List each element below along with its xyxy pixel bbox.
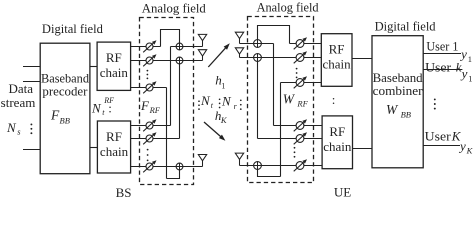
wire PS5 row to RF chain 2 (UE) r5 [258, 138, 323, 140]
wire antenna1 to adder B1 and riser corner r1 [240, 43, 274, 45]
svg-text:W: W [283, 92, 296, 107]
block: baseband precoder box [40, 43, 90, 174]
svg-text:Data: Data [9, 81, 34, 96]
wire user k output [423, 69, 462, 71]
wire RF1 through PS2 to adder A2 and antenna 2 row r2 [131, 60, 203, 62]
svg-text:y: y [459, 47, 467, 62]
block: RF chain 2 (UE) [322, 116, 352, 169]
svg-text:precoder: precoder [42, 83, 88, 98]
wire RF2 through PS6 and adder A3 to antenna 3 row r6 [131, 166, 203, 168]
wire RF2 to PS5 row r5 [131, 138, 180, 140]
node: dots between users [434, 98, 436, 109]
node: dots between inputs [30, 123, 32, 134]
wire riser from adder B2 bottom to PS5 row [257, 58, 259, 139]
phase shifter PU3 [294, 76, 307, 88]
svg-text:y: y [460, 66, 468, 81]
node: Ns label [6, 120, 21, 137]
node: dots between PS5 and PS6 [147, 149, 149, 162]
svg-text::: : [108, 101, 112, 116]
node: yk output label [460, 66, 473, 83]
node: RF chain 2 label [100, 129, 129, 159]
wire riser1 down to PS4 row [273, 44, 275, 126]
wire channel arrow up [208, 43, 230, 67]
svg-text:UE: UE [334, 185, 351, 200]
svg-text::: : [332, 92, 336, 107]
svg-text:Analog field: Analog field [142, 1, 206, 16]
svg-text:Analog field: Analog field [257, 0, 319, 14]
antenna UE 1 [235, 32, 243, 43]
wire data-stream input 2 [23, 81, 40, 83]
svg-text:chain: chain [100, 144, 129, 159]
svg-text:BS: BS [116, 185, 132, 200]
node: BS label [116, 185, 132, 200]
wire RF2 to PS4 row r4 [131, 125, 171, 127]
node: y1 output label [459, 47, 472, 64]
phase shifter PS5 [143, 132, 156, 144]
adder A1 [176, 43, 183, 50]
phase shifter PS3 [143, 81, 156, 93]
wire RF1 to PS1 row r1 [131, 46, 161, 48]
wire antenna3 through adder B3 and PS6 to RF chain 2 row r6 [240, 165, 323, 167]
adder B2 [254, 54, 262, 62]
wire riser r3 down [166, 88, 168, 179]
wire user 1 output [423, 53, 461, 55]
node: Digital field label (BS) [42, 21, 103, 36]
block: RF chain 1 (UE) [321, 34, 352, 87]
svg-text:y: y [458, 139, 466, 154]
node: User k label [425, 60, 462, 75]
node: RF chain 1 label [100, 50, 129, 80]
phase shifter PU1 [294, 37, 307, 49]
wire riser2 from PS3 row down [280, 83, 282, 177]
node: Nt Nr dims label [198, 93, 242, 111]
wire UE RF2 to combiner [353, 148, 373, 150]
node: Baseband combiner label [373, 70, 424, 98]
node: dots between PS2 and PS3 [147, 70, 149, 80]
wire channel arrow down [204, 122, 225, 141]
node: User 1 label [426, 38, 458, 53]
wire data-stream input 3 [23, 149, 40, 151]
svg-text:BB: BB [60, 116, 70, 126]
block: analog field dashed box (UE) [248, 17, 314, 183]
antenna BS 1 [198, 34, 206, 46]
svg-text:1: 1 [221, 81, 225, 90]
phase shifter PU6 [294, 159, 307, 171]
phase shifter PS6 [143, 160, 156, 172]
node: dots between UE RF chains [332, 92, 336, 107]
svg-text:RF: RF [329, 124, 345, 139]
wire over-path r1 to adder A1 top [161, 30, 180, 47]
block: RF chain 2 (BS) [97, 121, 130, 173]
wire precoder to RF chain 2 [90, 147, 98, 149]
phase shifter PS1 [143, 40, 156, 52]
phase shifter PU4 [294, 119, 307, 131]
wire RF1 to PS3 row r3 [131, 87, 167, 89]
antenna BS 2 [198, 50, 206, 61]
node: Baseband precoder label [41, 70, 89, 98]
wire PS4 row to RF chain 2 (UE) r4 [274, 125, 323, 127]
svg-text:Digital field: Digital field [42, 21, 103, 36]
node: WBB label [386, 102, 411, 120]
svg-text:RF: RF [106, 129, 122, 144]
svg-text:F: F [140, 98, 150, 113]
node: RF chain 2 UE label [323, 124, 352, 154]
wire user K output [423, 145, 460, 147]
node: Analog field label (UE) [257, 0, 319, 14]
phase shifter PU2 [294, 51, 307, 63]
node: Data stream label [1, 81, 36, 110]
svg-text:chain: chain [323, 57, 352, 72]
node: FBB label [50, 108, 70, 126]
svg-text:BB: BB [401, 110, 411, 120]
wire riser r4 up to adder A1 left [170, 47, 172, 126]
block: baseband combiner box [372, 36, 423, 168]
svg-text:RF: RF [296, 99, 308, 109]
svg-text:combiner: combiner [373, 83, 424, 98]
svg-text:N: N [200, 93, 211, 108]
svg-text:N: N [6, 120, 17, 135]
block: RF chain 1 (BS) [97, 42, 131, 90]
wire antenna2 through adder B2 and PS2 to RF1 row r2 [240, 57, 322, 59]
phase shifter PS2 [143, 54, 156, 66]
svg-text:User 1: User 1 [426, 38, 458, 53]
antenna UE 3 [235, 153, 243, 165]
node: Digital field label (UE) [375, 18, 436, 33]
wire data-stream input 1 [23, 66, 40, 68]
node: NtRF label [91, 96, 114, 117]
adder B3 [254, 162, 262, 170]
svg-text:User: User [425, 129, 452, 144]
phase shifter PU5 [294, 132, 307, 144]
antenna UE 2 [235, 48, 243, 58]
node: User K label [425, 129, 462, 144]
svg-text:F: F [50, 108, 60, 123]
node: dots between PU2 and PU3 [296, 68, 298, 79]
svg-text:chain: chain [323, 139, 352, 154]
node: UE label [334, 185, 351, 200]
svg-text:RF: RF [149, 105, 161, 115]
node: RF chain 1 UE label [323, 42, 352, 72]
svg-text:1: 1 [468, 54, 472, 64]
wire over-path into adder B1 top [258, 26, 290, 44]
svg-text:W: W [386, 102, 399, 117]
wire PS1 row to RF chain 1 (UE) [290, 43, 322, 45]
wire precoder to RF chain 1 [90, 66, 97, 68]
node: hK label [215, 108, 228, 125]
adder B1 [254, 40, 262, 48]
svg-text:N: N [221, 94, 232, 109]
wire UE RF1 to combiner [352, 58, 372, 60]
svg-text:N: N [91, 100, 102, 115]
wire riser from adder A2 bottom to PS5 row [179, 61, 181, 139]
svg-text:User: User [425, 60, 452, 75]
node: WRF label [283, 92, 309, 109]
node: FRF label [140, 98, 161, 115]
svg-text:RF: RF [106, 50, 122, 65]
svg-text:chain: chain [100, 65, 129, 80]
svg-text:Digital field: Digital field [375, 18, 436, 33]
phase shifter PS4 [143, 119, 156, 131]
node: dots between PU5 and PU6 [294, 147, 296, 158]
wire under-path into adder B3 bottom [258, 166, 281, 177]
svg-text:RF: RF [329, 42, 345, 57]
svg-text:stream: stream [1, 95, 36, 110]
wire PS3 row to RF chain 1 (UE) r3 [281, 82, 322, 84]
node: h1 label [215, 72, 225, 90]
adder A3 [176, 163, 183, 170]
antenna BS 3 [198, 155, 206, 167]
node: Analog field label (BS) [142, 1, 206, 16]
wire adder A1 row to antenna 1 [171, 46, 203, 48]
adder A2 [176, 57, 183, 64]
node: yK output label [458, 139, 474, 156]
svg-text:1: 1 [468, 74, 472, 84]
block: analog field dashed box (BS) [140, 18, 194, 185]
wire under-path into adder A3 bottom [167, 167, 180, 179]
